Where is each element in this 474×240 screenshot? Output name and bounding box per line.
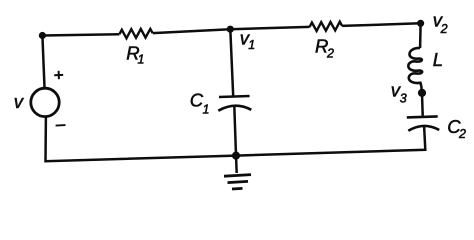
ground	[224, 156, 251, 189]
svg-text:L: L	[433, 49, 443, 70]
wire inductor bottom to node v3	[420, 86, 423, 93]
svg-text:1: 1	[203, 102, 210, 116]
svg-text:2: 2	[326, 47, 334, 61]
wire node v1 down to C1 top plate	[230, 29, 233, 96]
svg-text:1: 1	[248, 38, 255, 52]
minus sign	[56, 124, 66, 127]
label v1	[240, 28, 255, 53]
inductor L	[408, 48, 422, 86]
label v3	[391, 80, 407, 106]
wire R1 right to node v1	[153, 29, 231, 33]
label L	[433, 49, 443, 70]
wire top-left node down to source + terminal	[42, 36, 44, 88]
voltage source v	[31, 88, 59, 116]
capacitor C1	[218, 96, 251, 111]
wire R2 right to node v2	[342, 23, 421, 26]
svg-text:2: 2	[440, 22, 448, 36]
wire node v3 down to C2 top plate	[421, 93, 424, 116]
label v2	[433, 9, 448, 36]
svg-text:1: 1	[138, 53, 145, 67]
svg-text:2: 2	[458, 127, 466, 141]
label R1	[126, 43, 144, 67]
svg-text:3: 3	[400, 92, 407, 106]
label R2	[315, 36, 334, 61]
resistor R1	[119, 29, 152, 38]
label C2	[447, 116, 466, 141]
wire top-left node to R1 left	[42, 34, 119, 35]
plus sign	[54, 71, 63, 79]
label C1	[190, 90, 210, 117]
ground node	[232, 152, 240, 160]
wire C1 bottom to ground node	[234, 106, 236, 156]
node A top-left	[39, 32, 46, 39]
node v3	[418, 89, 426, 97]
capacitor C2	[407, 116, 439, 130]
label v (source)	[14, 91, 25, 112]
wire ground node to bottom-right corner to C2 bottom	[236, 126, 425, 156]
node v1	[227, 26, 234, 33]
node v2	[417, 20, 424, 27]
wire node v1 to R2 left	[230, 27, 309, 29]
resistor R2	[310, 22, 343, 31]
wire node v2 down to inductor top	[419, 23, 422, 48]
wire source bottom to bottom-left corner to ground node	[46, 117, 237, 161]
